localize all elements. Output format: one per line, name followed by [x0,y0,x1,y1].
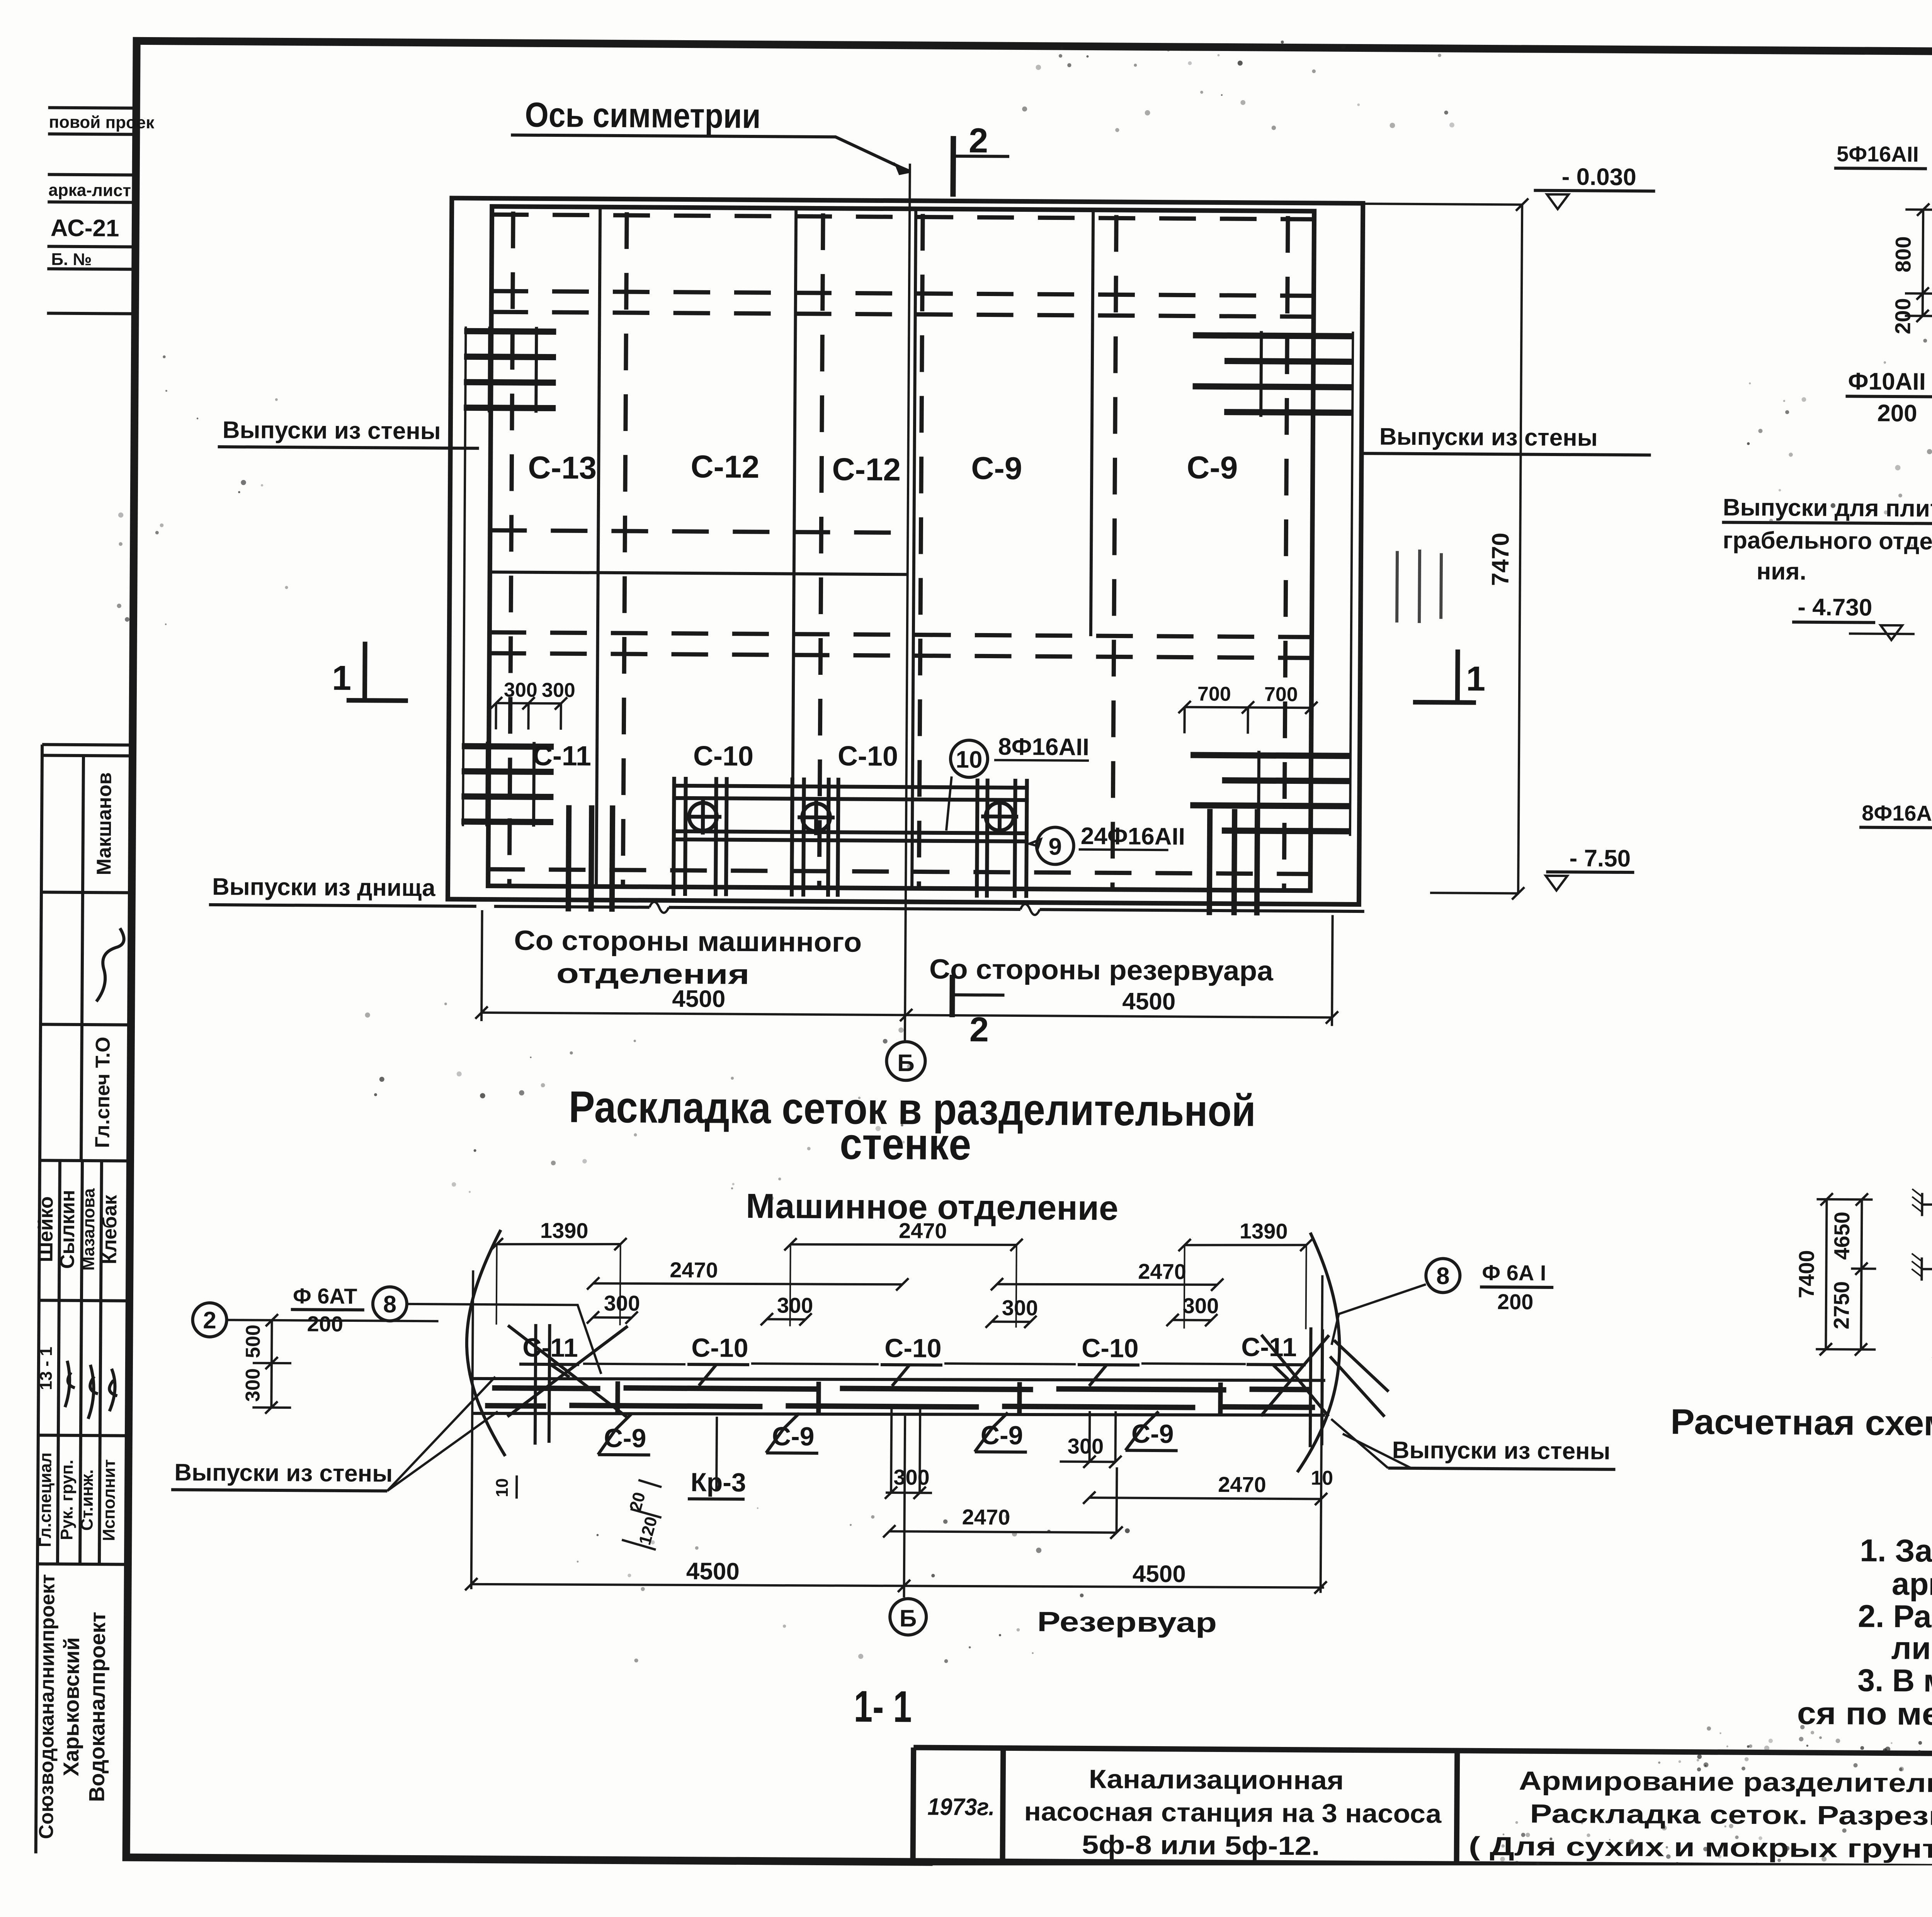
svg-text:Сылкин: Сылкин [56,1190,79,1269]
svg-text:Шейко: Шейко [34,1196,57,1262]
beam top edge [473,1376,1325,1384]
svg-text:Кр-3: Кр-3 [690,1468,746,1497]
callout circle 10 with 8Ф16АII [951,740,988,778]
svg-text:2470: 2470 [899,1218,947,1243]
svg-text:300: 300 [604,1291,640,1316]
svg-text:200: 200 [1877,400,1917,427]
svg-text:С-12: С-12 [690,449,759,485]
svg-text:8Ф16АII: 8Ф16АII [1862,801,1932,826]
anchor circle 2 [798,800,835,836]
svg-text:Выпуски из днища: Выпуски из днища [212,873,435,901]
scheme dim 4650 2750 [1850,1193,1876,1355]
left vertical tie line [463,327,466,826]
svg-text:Выпуски из стены: Выпуски из стены [174,1459,393,1487]
svg-text:700: 700 [1197,683,1231,705]
label connector line [583,1360,1246,1368]
svg-text:С-11: С-11 [532,741,592,772]
svg-text:1: 1 [332,659,352,698]
svg-text:Б: Б [897,1050,915,1076]
beam left end bracing [507,1324,628,1445]
svg-text:С-10: С-10 [1082,1333,1139,1363]
svg-text:насосная станция на 3 насоса: насосная станция на 3 насоса [1024,1797,1442,1828]
svg-text:300: 300 [777,1293,813,1318]
svg-text:Исполнит: Исполнит [99,1459,119,1541]
svg-text:Выпуски из стены: Выпуски из стены [1392,1437,1611,1465]
svg-text:300: 300 [893,1465,930,1490]
svg-text:Мазалова: Мазалова [79,1188,98,1271]
svg-text:С-12: С-12 [832,452,901,487]
wall outlet hatch right bottom [1190,755,1350,831]
dim extension verticals row1 [497,1240,1306,1329]
title block grid [913,1747,1932,1872]
svg-text:С-13: С-13 [528,450,597,486]
svg-text:7470: 7470 [1487,533,1514,586]
svg-text:Б: Б [900,1605,917,1632]
plan partial dashed line [490,530,908,533]
svg-text:Харьковский: Харьковский [59,1637,84,1776]
svg-text:8: 8 [1436,1263,1450,1289]
beam mesh bars top row [492,1385,1311,1393]
svg-text:Выпуски для плиты: Выпуски для плиты [1723,494,1932,522]
svg-text:2470: 2470 [1218,1472,1266,1497]
svg-text:2: 2 [969,121,988,160]
svg-text:Водоканалпроект: Водоканалпроект [84,1612,110,1802]
svg-text:24Ф16АII: 24Ф16АII [1081,823,1185,850]
svg-text:2470: 2470 [962,1505,1010,1529]
svg-text:С-10: С-10 [884,1333,942,1363]
svg-text:отделения: отделения [556,958,750,990]
svg-text:Ст.инж.: Ст.инж. [77,1469,97,1531]
plan inner wall rectangle [488,206,1314,890]
level -7.50 [1430,893,1519,893]
beam bottom edge [472,1410,1325,1418]
svg-text:8: 8 [383,1291,396,1318]
svg-text:Выпуски из стены: Выпуски из стены [1379,423,1598,451]
svg-text:2470: 2470 [1138,1259,1186,1284]
plan outer wall rectangle [448,198,1363,905]
svg-text:Гл.специал: Гл.специал [36,1452,55,1547]
svg-text:С-10: С-10 [691,1333,748,1363]
svg-text:Б. №: Б. № [51,250,92,269]
plan horizontal dashed lines [488,215,1314,874]
svg-text:Ф10АII: Ф10АII [1848,368,1926,395]
svg-text:С-10: С-10 [693,741,754,772]
svg-text:300: 300 [1002,1296,1038,1320]
svg-text:грабельного отделе-: грабельного отделе- [1723,527,1932,555]
svg-text:200: 200 [1497,1289,1534,1314]
svg-text:С-11: С-11 [522,1333,578,1363]
svg-text:Канализационная: Канализационная [1089,1764,1344,1795]
svg-text:10: 10 [493,1478,512,1497]
svg-text:повой проек: повой проек [49,112,155,132]
svg-text:Союзводоканалниипроект: Союзводоканалниипроект [35,1574,59,1839]
svg-text:10: 10 [956,746,982,773]
svg-text:ния.: ния. [1757,558,1806,585]
beam left break curve [466,1230,507,1456]
svg-text:Резервуар: Резервуар [1037,1606,1217,1638]
left margin upper table [47,107,136,313]
svg-text:Ф 6А I: Ф 6А I [1482,1260,1546,1285]
svg-text:1: 1 [1466,660,1486,698]
svg-text:1390: 1390 [1240,1219,1288,1243]
circle 8 right with Ф6АI/200 [1426,1258,1460,1293]
right vertical tie line [1350,332,1353,836]
svg-text:Армирование разделительной сте: Армирование разделительной стенки. [1519,1766,1932,1799]
level -0.030 left of section line [1363,204,1523,204]
bottom outlet ticks left group [568,805,613,912]
svg-text:Макшанов: Макшанов [93,772,116,875]
left stamp table [36,744,133,1854]
plan vertical mesh edges (dashed) [509,211,1288,889]
svg-text:- 7.50: - 7.50 [1569,845,1631,872]
svg-text:7400: 7400 [1794,1250,1819,1298]
svg-text:АС-21: АС-21 [51,215,119,242]
section mark 2 bottom [949,975,955,1017]
dimension 800 [1905,203,1932,322]
svg-text:Гл.спеч Т.О: Гл.спеч Т.О [91,1037,114,1148]
plan partial solid line [490,572,908,574]
svg-text:300: 300 [241,1368,264,1402]
left vertical dims 500 300 [252,1314,291,1414]
svg-text:( Для сухих и мокрых грунтов.: ( Для сухих и мокрых грунтов.) [1469,1832,1932,1864]
circle Б bottom [890,1599,927,1635]
svg-text:Клебак: Клебак [98,1195,121,1265]
svg-text:Расчетная схема разделительной: Расчетная схема разделительной стенки [1670,1402,1932,1446]
svg-text:4500: 4500 [1133,1561,1186,1588]
svg-text:Со стороны машинного: Со стороны машинного [514,925,862,958]
svg-text:200: 200 [1890,298,1915,334]
axis circle Б [886,1042,925,1081]
svg-text:500: 500 [242,1325,264,1358]
beam right end bracing [1261,1327,1389,1448]
svg-text:800: 800 [1891,236,1915,272]
beam right break curve [1297,1233,1340,1473]
svg-text:С-11: С-11 [1241,1332,1297,1362]
svg-text:1- 1: 1- 1 [854,1682,912,1732]
svg-text:Рук. груп.: Рук. груп. [57,1460,77,1540]
svg-text:Ось симметрии: Ось симметрии [525,96,761,136]
svg-text:1. Защитный слой бетона для ра: 1. Защитный слой бетона для рабочей [1860,1533,1932,1572]
svg-text:стенке: стенке [840,1119,971,1169]
wall outlet hatch right top [1192,335,1353,413]
svg-text:5Ф16АII: 5Ф16АII [1837,141,1919,166]
svg-text:Со стороны резервуара: Со стороны резервуара [929,954,1274,987]
svg-text:4500: 4500 [1122,988,1175,1015]
bottom rebar cluster vertical bars [673,777,1027,898]
anchor circle 3 [981,798,1019,834]
ground line below plan [494,906,1364,911]
beam mesh bars bottom row [485,1403,1315,1410]
svg-text:С-9: С-9 [971,451,1022,486]
svg-text:4500: 4500 [686,1558,740,1585]
wall outlet hatch left top [464,331,556,408]
svg-text:2: 2 [203,1307,216,1334]
bottom rebar cluster frame bars [674,786,1029,841]
section mark 2 top [950,136,956,197]
dim row 1390 2470 1390 [491,1237,627,1251]
svg-text:С-10: С-10 [838,741,898,772]
svg-text:арка-лист: арка-лист [48,180,131,200]
svg-text:4500: 4500 [672,986,725,1013]
svg-text:С-9: С-9 [1187,450,1238,485]
svg-text:700: 700 [1264,683,1298,706]
plan right dimension line 7470 [1512,198,1528,899]
axis of symmetry line [905,163,910,1043]
wall outlet hatch left bottom [461,746,554,822]
left circle 2 with axis [192,1303,227,1337]
svg-text:4650: 4650 [1830,1212,1854,1260]
svg-text:2470: 2470 [670,1258,718,1282]
anchor circle 1 [684,799,722,835]
svg-text:Ф 6АТ: Ф 6АТ [293,1284,357,1308]
svg-text:1390: 1390 [540,1218,588,1243]
svg-text:8Ф16АII: 8Ф16АII [998,734,1089,761]
scheme dim 7400 [1816,1193,1876,1356]
svg-text:ся по месту и приваривается к: ся по месту и приваривается к сальникам. [1797,1696,1932,1735]
svg-text:Выпуски из стены: Выпуски из стены [223,417,441,444]
pencil smudge marks [1397,550,1441,623]
svg-text:300: 300 [542,679,575,701]
svg-text:- 0.030: - 0.030 [1562,163,1636,191]
svg-text:1973г.: 1973г. [927,1794,995,1821]
bottom outlet ticks right group [1209,809,1258,916]
plan vertical mesh dividers (solid) [596,207,1093,889]
svg-text:арматуры принят 30 мм.: арматуры принят 30 мм. [1891,1566,1932,1604]
svg-text:5ф-8 или 5ф-12.: 5ф-8 или 5ф-12. [1082,1830,1320,1861]
stamp signature [96,928,124,1001]
callout circle 9 with 24Ф16АII [1036,827,1074,865]
dimension 4500 4500 below plan [475,910,1339,1026]
svg-text:300: 300 [1068,1434,1104,1459]
svg-text:200: 200 [307,1311,343,1336]
svg-text:листе АС- 19.: листе АС- 19. [1891,1631,1932,1667]
svg-text:13 - 1: 13 - 1 [37,1347,56,1390]
svg-text:9: 9 [1048,833,1062,860]
dim row 2470 2470 [587,1277,908,1292]
svg-text:300: 300 [1183,1293,1219,1318]
svg-text:- 4.730: - 4.730 [1798,594,1872,621]
svg-text:2750: 2750 [1829,1281,1854,1330]
beam mesh joints [617,1379,1220,1416]
